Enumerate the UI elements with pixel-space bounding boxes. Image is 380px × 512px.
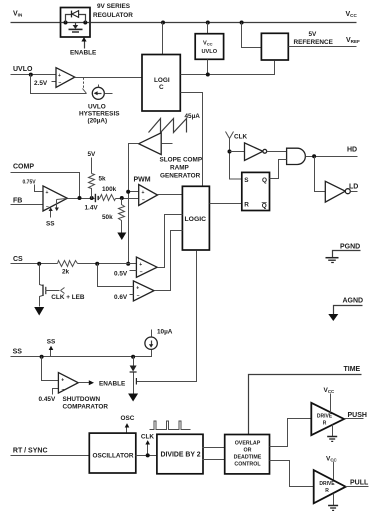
svg-text:(20µA): (20µA) <box>88 118 108 125</box>
svg-text:DRIVE: DRIVE <box>317 413 333 419</box>
svg-text:1.4V: 1.4V <box>85 205 99 212</box>
svg-text:+: + <box>139 262 142 268</box>
svg-text:R: R <box>323 421 327 427</box>
svg-text:SS: SS <box>47 339 56 346</box>
svg-text:UVLO: UVLO <box>202 49 218 55</box>
svg-text:UVLO: UVLO <box>88 104 106 111</box>
svg-text:HYSTERESIS: HYSTERESIS <box>79 111 120 118</box>
svg-text:CLK + LEB: CLK + LEB <box>51 294 85 301</box>
svg-text:TIME: TIME <box>344 366 361 373</box>
svg-text:−: − <box>59 80 62 86</box>
svg-text:DIVIDE BY 2: DIVIDE BY 2 <box>161 452 201 459</box>
svg-text:CLK: CLK <box>141 433 155 440</box>
svg-text:REFERENCE: REFERENCE <box>294 39 334 46</box>
svg-text:OSC: OSC <box>121 415 135 422</box>
svg-text:−: − <box>140 269 143 275</box>
svg-text:ENABLE: ENABLE <box>99 381 126 388</box>
svg-text:COMPARATOR: COMPARATOR <box>63 404 109 411</box>
svg-text:PUSH: PUSH <box>348 412 367 419</box>
svg-text:CLK: CLK <box>234 134 248 141</box>
svg-text:+: + <box>142 190 145 196</box>
svg-text:PWM: PWM <box>134 177 151 184</box>
svg-text:5V: 5V <box>309 31 318 38</box>
svg-text:9V SERIES: 9V SERIES <box>97 3 131 10</box>
svg-text:DRIVE: DRIVE <box>319 481 335 487</box>
svg-text:C: C <box>159 84 164 91</box>
svg-text:LOGIC: LOGIC <box>185 216 207 223</box>
svg-text:LD: LD <box>349 183 358 190</box>
svg-text:PULL: PULL <box>350 479 369 486</box>
svg-text:AGND: AGND <box>343 298 364 305</box>
svg-text:−: − <box>142 198 145 204</box>
svg-text:GENERATOR: GENERATOR <box>160 173 201 180</box>
svg-text:2k: 2k <box>62 269 70 276</box>
svg-text:OVERLAP: OVERLAP <box>235 440 261 446</box>
svg-text:Q: Q <box>262 202 267 209</box>
svg-text:−: − <box>62 387 65 393</box>
svg-text:100k: 100k <box>102 186 117 193</box>
svg-text:R: R <box>244 202 249 209</box>
svg-text:FB: FB <box>13 198 22 205</box>
svg-text:HD: HD <box>347 147 357 154</box>
svg-text:0.5V: 0.5V <box>114 270 128 277</box>
svg-text:OR: OR <box>244 447 252 453</box>
svg-text:CONTROL: CONTROL <box>234 461 261 467</box>
svg-text:SS: SS <box>13 349 23 356</box>
svg-text:SHUTDOWN: SHUTDOWN <box>63 396 101 403</box>
svg-text:SS: SS <box>46 221 55 228</box>
svg-text:VCC: VCC <box>203 41 213 47</box>
svg-text:Q: Q <box>262 177 267 184</box>
svg-text:−: − <box>46 204 49 210</box>
svg-text:UVLO: UVLO <box>13 66 33 73</box>
svg-text:10µA: 10µA <box>157 329 173 336</box>
svg-text:SLOPE COMP: SLOPE COMP <box>160 157 203 164</box>
svg-text:2.5V: 2.5V <box>34 80 48 87</box>
svg-text:COMP: COMP <box>13 164 34 171</box>
svg-text:S: S <box>244 177 249 184</box>
svg-text:0.45V: 0.45V <box>39 396 56 403</box>
svg-text:OSCILLATOR: OSCILLATOR <box>93 453 134 460</box>
svg-text:+: + <box>61 378 64 384</box>
svg-text:LOGI: LOGI <box>154 77 170 84</box>
svg-text:DEADTIME: DEADTIME <box>234 454 262 460</box>
svg-text:50k: 50k <box>102 214 113 221</box>
svg-text:ENABLE: ENABLE <box>70 50 97 57</box>
svg-text:5k: 5k <box>99 176 107 183</box>
svg-text:−: − <box>137 293 140 299</box>
svg-text:+: + <box>136 286 139 292</box>
svg-text:5V: 5V <box>88 151 97 158</box>
svg-text:CS: CS <box>13 256 23 263</box>
svg-text:0.6V: 0.6V <box>114 294 128 301</box>
svg-text:RT / SYNC: RT / SYNC <box>13 447 48 454</box>
svg-text:R: R <box>325 488 329 494</box>
svg-text:PGND: PGND <box>340 243 360 250</box>
svg-text:+: + <box>46 190 49 196</box>
svg-text:REGULATOR: REGULATOR <box>93 12 133 19</box>
svg-text:+: + <box>58 73 61 79</box>
svg-text:RAMP: RAMP <box>170 165 190 172</box>
